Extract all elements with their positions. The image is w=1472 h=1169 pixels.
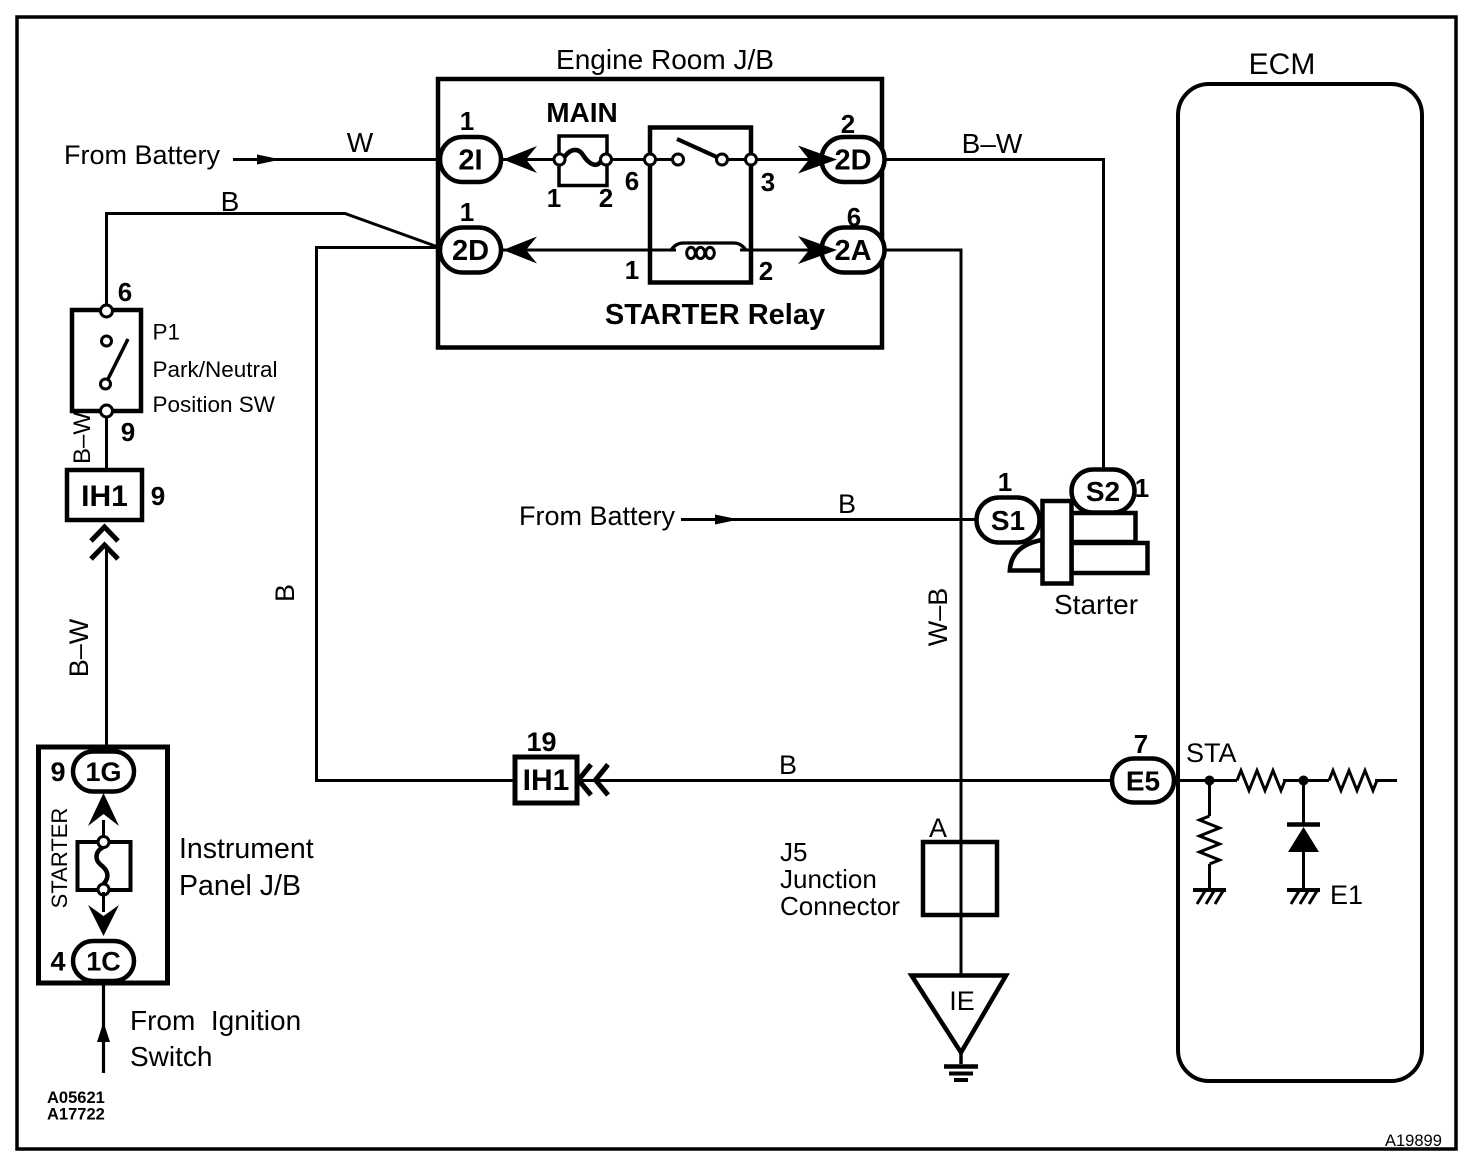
svg-text:A17722: A17722 <box>47 1106 105 1124</box>
wire: 2I to MAIN fuse <box>470 158 556 161</box>
switch P1 Park/Neutral Position SW <box>72 277 278 470</box>
svg-text:From Battery: From Battery <box>519 501 676 531</box>
wire W: From Battery to 2I <box>64 127 441 170</box>
junction node (diode tap) <box>1299 776 1309 786</box>
svg-text:B: B <box>221 186 240 217</box>
junction box: Engine Room J/B <box>438 44 882 348</box>
svg-text:4: 4 <box>50 947 65 977</box>
svg-text:7: 7 <box>1134 729 1148 759</box>
wire B: 2D(1) to P1 pin 6 <box>107 186 439 307</box>
connector E5 pin 7 <box>1112 729 1174 803</box>
svg-text:A05621: A05621 <box>47 1089 105 1107</box>
svg-text:B–W: B–W <box>64 618 94 677</box>
arrow into 2A <box>798 236 837 264</box>
svg-text:6: 6 <box>625 166 639 196</box>
svg-text:IH1: IH1 <box>523 764 570 797</box>
svg-text:B: B <box>838 489 856 519</box>
svg-text:3: 3 <box>761 167 775 197</box>
junction box: Instrument Panel J/B <box>39 747 314 983</box>
connector IH1 pin 19 (center) <box>515 727 577 803</box>
svg-text:9: 9 <box>50 757 65 787</box>
resistor R1 (series) <box>1237 771 1285 791</box>
junction node (E5 pull-down) <box>1205 776 1215 786</box>
svg-text:1C: 1C <box>86 947 121 977</box>
svg-text:2I: 2I <box>458 145 482 177</box>
svg-text:P1: P1 <box>153 320 181 345</box>
connector IH1 pin 9 (left) <box>67 470 165 520</box>
svg-text:W–B: W–B <box>923 588 953 647</box>
fuse MAIN <box>546 97 618 213</box>
arrow into 2D(1) <box>503 237 537 264</box>
chevrons on wire B at IH1 <box>579 765 609 796</box>
svg-text:Switch: Switch <box>130 1041 212 1072</box>
connector 2A pin 6 <box>822 202 885 273</box>
svg-text:W: W <box>347 127 374 158</box>
svg-text:Engine Room J/B: Engine Room J/B <box>556 44 774 75</box>
chevrons below IH1 <box>91 527 118 559</box>
svg-text:Instrument: Instrument <box>179 833 314 865</box>
svg-text:Panel J/B: Panel J/B <box>179 870 301 902</box>
connector 2I pin 1 <box>440 106 501 182</box>
wire W-B: 2A to IE ground <box>884 250 961 975</box>
svg-text:1: 1 <box>625 255 639 285</box>
wire STA inside ECM <box>1174 779 1237 782</box>
svg-text:9: 9 <box>151 481 165 511</box>
ECM module <box>1178 48 1422 1081</box>
svg-text:ECM: ECM <box>1249 48 1316 81</box>
svg-text:IH1: IH1 <box>81 480 128 513</box>
wire between fuse and arrow <box>102 892 105 912</box>
svg-text:2: 2 <box>759 256 773 286</box>
connector 1C pin 4 <box>50 941 134 981</box>
resistor R3 (pull-down to ground) <box>1200 781 1220 890</box>
svg-text:9: 9 <box>121 417 135 447</box>
svg-text:B: B <box>779 750 797 780</box>
wire B: 2D(1) branch down to IH1(19) <box>270 248 516 781</box>
ground bars <box>944 1064 978 1069</box>
wire B-W: 2D(2) to S2 <box>884 128 1104 470</box>
wire B: IH1(19) to ECM E5 <box>576 750 1113 781</box>
wire B-W: ignition feed up to IH1 <box>64 548 107 752</box>
svg-text:STARTER: STARTER <box>47 808 72 909</box>
svg-text:Position SW: Position SW <box>153 392 276 417</box>
diode D1 <box>1287 781 1320 890</box>
ground (chassis) under R3 <box>1193 890 1226 904</box>
svg-text:6: 6 <box>118 277 132 307</box>
wire from ignition switch <box>97 981 301 1073</box>
svg-text:A19899: A19899 <box>1385 1132 1442 1150</box>
svg-text:Junction: Junction <box>780 864 877 894</box>
svg-text:B–W: B–W <box>69 412 96 464</box>
wire: relay pin 3 to 2D(2) <box>751 158 827 161</box>
svg-text:S2: S2 <box>1086 476 1120 507</box>
svg-text:B–W: B–W <box>962 128 1023 159</box>
svg-text:S1: S1 <box>991 505 1025 536</box>
connector 1G pin 9 <box>50 752 134 792</box>
svg-text:A: A <box>929 813 947 843</box>
svg-text:E5: E5 <box>1126 766 1160 797</box>
svg-text:2D: 2D <box>452 235 489 267</box>
svg-text:B: B <box>270 584 300 602</box>
wire: MAIN fuse to relay pin 6 <box>610 158 655 161</box>
svg-text:1: 1 <box>1135 473 1149 503</box>
connector 2D pin 2 (right) <box>822 109 885 182</box>
resistor R2 (series) <box>1329 771 1377 791</box>
svg-text:1: 1 <box>460 197 474 227</box>
svg-text:MAIN: MAIN <box>546 97 618 128</box>
ground connector IE <box>912 976 1007 1081</box>
svg-text:2A: 2A <box>834 235 871 267</box>
svg-text:1G: 1G <box>85 757 121 787</box>
svg-text:1: 1 <box>460 106 474 136</box>
connector S2 pin 1 <box>1072 470 1150 513</box>
svg-text:STA: STA <box>1186 738 1237 768</box>
svg-text:IE: IE <box>949 986 975 1016</box>
wire between arrow and fuse <box>102 820 105 840</box>
svg-text:6: 6 <box>847 202 861 232</box>
svg-text:Park/Neutral: Park/Neutral <box>153 357 278 382</box>
svg-text:1: 1 <box>998 467 1012 497</box>
junction connector J5 pin A <box>780 813 997 921</box>
wire: relay coil pin 2 to 2A <box>740 249 827 252</box>
ground (chassis) under diode, node E1 <box>1287 880 1363 910</box>
svg-text:Starter: Starter <box>1054 589 1138 620</box>
svg-text:E1: E1 <box>1330 880 1363 910</box>
svg-text:STARTER Relay: STARTER Relay <box>605 299 825 331</box>
relay coil (pins 1-2) <box>671 243 746 259</box>
svg-text:2D: 2D <box>834 145 871 177</box>
relay K1 STARTER Relay body <box>650 128 751 283</box>
arrow up (black) to 1G <box>88 793 119 826</box>
fuse STARTER (instrument panel) <box>47 808 131 909</box>
connector 2D pin 1 (left) <box>440 197 501 273</box>
svg-text:From Ignition: From Ignition <box>130 1005 301 1036</box>
svg-text:1: 1 <box>547 183 561 213</box>
svg-text:2: 2 <box>841 109 855 139</box>
svg-text:19: 19 <box>526 727 556 757</box>
wire B: From Battery to S1 <box>519 489 977 531</box>
arrow into 2I <box>503 146 537 173</box>
svg-text:From Battery: From Battery <box>64 140 221 170</box>
svg-text:Connector: Connector <box>780 891 900 921</box>
svg-text:J5: J5 <box>780 837 807 867</box>
starter motor <box>1010 501 1148 620</box>
connector S1 pin 1 <box>977 467 1040 543</box>
relay switch contact (pins 6-3) <box>645 139 757 165</box>
arrow into 2D(2) <box>798 146 837 174</box>
wire: 2D(1) to relay coil pin 1 <box>470 249 676 252</box>
label A05621 / A17722 <box>47 1089 105 1124</box>
svg-text:2: 2 <box>599 183 613 213</box>
arrow down (black) to 1C <box>88 905 119 936</box>
